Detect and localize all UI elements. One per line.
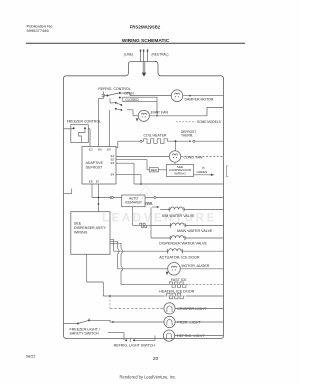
svg-text:E4: E4 [111,172,115,176]
wire switch to damper run [120,92,130,94]
wire cond fan to rail dashed [181,156,224,158]
plug shelf [132,61,158,63]
svg-text:THERM.: THERM. [181,134,193,138]
svg-text:S/M WATER VALVE: S/M WATER VALVE [162,214,195,218]
damper motor M1 [171,90,183,102]
refrig light lamp [163,330,174,341]
wire switch to E6 [98,98,103,100]
dashed wire to crisper light [109,295,111,297]
auger run [118,268,168,270]
icemaker top-right wire to rail [145,197,154,199]
green output arrow [194,174,211,176]
cond fan motor [169,151,180,162]
harness bundle from dispenser box [110,238,114,240]
svg-text:MOTOR, AUGER: MOTOR, AUGER [182,264,210,268]
plug prong 2 [143,52,145,62]
svg-text:HEATER, ICE DOOR: HEATER, ICE DOOR [159,290,194,294]
auger motor [168,263,181,276]
svg-text:REFRIG. LIGHT: REFRIG. LIGHT [177,334,205,338]
see compressor wiring box [167,165,194,177]
wire evap left stub [127,109,133,111]
svg-text:COND. FAN: COND. FAN [183,155,203,159]
wire E4 [116,174,141,176]
svg-text:FREEZER CONTROL: FREEZER CONTROL [67,120,101,124]
see dispenser assy wiring box [71,212,110,255]
wire evap to right rail with step [149,115,207,117]
wire heater to junction [169,140,189,142]
wire damper to right rail [183,95,224,97]
svg-text:E6: E6 [98,147,102,151]
svg-text:CRISPER LIGHT: CRISPER LIGHT [177,307,207,311]
defrost coil heater element [142,139,169,144]
svg-text:20: 20 [153,356,159,362]
wire to damper motor [130,95,171,97]
svg-text:SAFETY SWITCH: SAFETY SWITCH [70,331,99,335]
refrig light switch [108,332,124,334]
plug prong 3 [147,52,149,62]
svg-text:WIRING: WIRING [174,171,186,175]
svg-text:MAIN WATER VALVE: MAIN WATER VALVE [177,229,213,233]
freezer control box [71,125,89,143]
wire closed-box to evap run [156,102,158,116]
svg-text:WIRING SCHEMATIC: WIRING SCHEMATIC [122,38,170,44]
wire E5 to compressor [116,159,147,161]
supply arrow into border [142,73,147,77]
watermark logo mark [137,185,155,199]
plug prong 1 [140,52,142,62]
wire red to compressor box [158,169,166,171]
svg-text:DISPENSER ASS'Y: DISPENSER ASS'Y [74,226,106,230]
CLOSED contact box [123,97,157,102]
svg-text:RED: RED [151,168,157,172]
svg-text:ACTUATOR, ICE DOOR: ACTUATOR, ICE DOOR [159,256,200,260]
dashed some-models wire [176,121,196,123]
svg-text:E3: E3 [111,161,115,165]
svg-text:EVAP. FAN: EVAP. FAN [151,110,169,114]
evap fan motor [138,110,149,121]
svg-text:E7: E7 [96,179,100,183]
wire heater junction down to cond fan [175,141,177,151]
wire down to actuator run [113,239,115,251]
wire down to auger run with hop [117,241,119,248]
icemaker prong connector [145,203,152,205]
svg-text:Rendered by LeadVenture, Inc.: Rendered by LeadVenture, Inc. [120,375,177,380]
svg-text:FAST ICE: FAST ICE [171,278,188,282]
svg-text:CLOSED: CLOSED [125,98,139,102]
wire rail to freezer control [64,128,74,130]
stub corner on left rail [64,193,72,195]
svg-text:DISPENSER WATER VALVE: DISPENSER WATER VALVE [159,242,207,246]
S/M water valve run [160,208,170,210]
main water valve coil [172,223,185,225]
connector [109,196,111,199]
freezer control thermostat element [79,129,86,143]
RED terminal box [149,168,158,172]
switch pole 1 [103,95,107,97]
auto icemaker box [122,195,145,207]
freezer light lamp [164,316,175,327]
actuator ice door run [114,250,169,252]
adaptive defrost control box [82,147,116,185]
svg-text:ADAPTIVE: ADAPTIVE [86,161,104,165]
right rail bracket [226,166,228,177]
svg-text:SOME MODELS: SOME MODELS [197,120,221,124]
schematic border left+top with plug notch [64,62,224,339]
bus wire y184 [134,183,224,185]
wire freezer control to defrost board [88,128,90,130]
supply wire pair [142,62,144,74]
svg-text:COIL HEATER: COIL HEATER [144,133,167,137]
svg-text:(LINE): (LINE) [124,52,133,56]
wire icemaker bottom down [132,207,134,226]
crisper light lamp [164,303,175,314]
switch pole 2 [109,99,111,104]
svg-text:LEADVENTURE: LEADVENTURE [102,213,217,225]
defrost thermostat connector [189,140,191,142]
wire switch to freezer lamp [89,319,110,321]
svg-text:5995377446: 5995377446 [27,28,50,33]
evap fan ground arrow [136,118,139,121]
svg-text:E9: E9 [107,147,111,151]
svg-text:WIRING: WIRING [74,230,88,234]
wire down from icemaker arrow [150,208,152,239]
wire down to fast ice with hops [120,243,122,248]
wire to icemaker [92,197,110,199]
fast ice connector [167,282,185,285]
dispenser water valve run [151,237,171,239]
wire cond fan to compressor box [174,162,176,164]
wire E1 to cond fan [116,155,169,157]
wire switch to E9 [108,110,110,147]
svg-text:REFRIG. LIGHT SWITCH: REFRIG. LIGHT SWITCH [114,344,156,348]
fast ice run [121,284,167,286]
main valve comb connector [133,224,139,226]
svg-text:DEFROST: DEFROST [86,166,104,170]
svg-text:E8: E8 [89,179,93,183]
auger ground arrow [166,272,169,275]
svg-text:E2: E2 [89,147,93,151]
header rule [26,42,245,44]
refrig control feed wire [102,92,104,95]
wire E8 down [91,184,93,198]
svg-text:DAMPER MOTOR: DAMPER MOTOR [185,98,214,102]
freezer light safety switch [64,323,79,325]
heater ice door run [103,295,164,297]
svg-text:FRS26W29SB2: FRS26W29SB2 [130,25,161,30]
svg-text:GREEN: GREEN [197,170,208,174]
svg-text:FRZR. LIGHT: FRZR. LIGHT [177,321,201,325]
svg-text:ICEMAKER: ICEMAKER [125,201,142,205]
svg-text:SEE: SEE [74,221,82,225]
wire E7 to dispenser box [97,184,99,212]
connector [140,140,142,142]
svg-text:(NEUTRAL): (NEUTRAL) [151,52,168,56]
svg-text:08/22: 08/22 [26,355,36,359]
wire E3 to lower bus [116,162,134,164]
heater ice door connector [165,293,183,296]
wire from dispenser box down [86,254,88,282]
wire E-top to coil heater [116,141,140,147]
icemaker output arrow [152,206,157,208]
